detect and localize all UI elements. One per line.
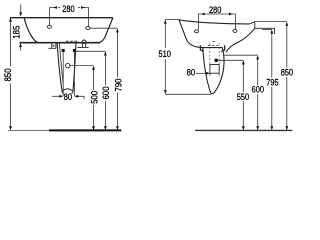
node: basin underside curve: [188, 42, 223, 48]
wire: drain pipe right line: [218, 43, 220, 64]
node: pedestal inner bottom arc: [62, 89, 73, 91]
svg-text:510: 510: [159, 48, 171, 59]
node: rectangle corner ticks: [210, 73, 219, 75]
node A: basin left profile: [24, 18, 38, 43]
wire: basin rim top line: [10, 17, 113, 19]
dimension 600 (pedestal back to floor): [224, 55, 258, 127]
wire: drain pipe left line: [209, 43, 211, 64]
wire: left bolt line down: [62, 52, 64, 96]
wire: right bolt line down: [73, 52, 75, 96]
svg-text:280: 280: [209, 4, 221, 15]
svg-text:80: 80: [187, 66, 195, 77]
node: right small tab under basin: [77, 43, 88, 47]
node: semi-pedestal outline left edge: [57, 43, 62, 92]
node: basin front face diagonal: [179, 20, 188, 42]
dimension 850 left: [10, 21, 12, 127]
dimension 790 (rim side to floor): [90, 28, 117, 127]
node: fixing plate rectangle in pedestal: [210, 65, 219, 74]
node: right fixing bolt square: [73, 49, 76, 52]
svg-text:795: 795: [266, 77, 278, 88]
svg-text:80: 80: [64, 91, 72, 102]
svg-text:550: 550: [237, 91, 249, 102]
node: fixing bolt dot side view: [214, 59, 218, 63]
node: pedestal top right bracket: [221, 45, 224, 51]
dimension 280 top-left: [50, 8, 89, 27]
node: basin back edge to wall: [255, 22, 275, 34]
node: right tap hole side view: [233, 29, 237, 32]
node: basin side top surface: [179, 20, 250, 24]
svg-text:185: 185: [10, 26, 21, 39]
node: side pedestal right edge: [214, 48, 224, 94]
dimension 550 (bolt dot to floor): [218, 60, 243, 127]
dimension 80 side view: [196, 72, 207, 74]
wire: floor line thick under left view: [49, 129, 121, 131]
svg-text:600: 600: [252, 84, 264, 95]
wire: floor line right view: [195, 129, 292, 131]
wire: floor line thin left part: [8, 129, 49, 131]
node: basin underside rear curve: [226, 28, 255, 52]
svg-text:500: 500: [88, 91, 99, 104]
svg-text:850: 850: [2, 68, 13, 81]
node: pedestal right foot tick: [71, 92, 72, 95]
node: basin back top rise: [250, 22, 255, 24]
node: drain circle on pedestal: [66, 63, 70, 67]
node: left fixing bolt square: [62, 49, 65, 52]
dimension 280 top-right: [198, 14, 235, 30]
node: semi-pedestal inner left line: [59, 43, 63, 84]
node: tab bolt dot: [53, 45, 55, 47]
svg-text:790: 790: [112, 79, 123, 92]
svg-text:850: 850: [281, 67, 293, 78]
svg-text:280: 280: [62, 3, 74, 14]
node: left tap hole side view: [195, 30, 199, 33]
svg-text:600: 600: [100, 86, 111, 99]
node: side pedestal bottom tip: [211, 92, 214, 95]
node: pedestal top left bracket: [200, 45, 203, 51]
wire: basin bottom line: [20, 42, 101, 44]
node: right tap hole: [86, 27, 90, 30]
node: semi-pedestal outline right edge: [73, 43, 76, 92]
wire: hidden dashed line under basin: [66, 40, 78, 42]
node: left fixing tab under basin: [49, 43, 56, 48]
node B: basin right profile: [99, 18, 112, 43]
dimension 850 right (rim top to floor): [255, 22, 287, 127]
dimension 600 (bolt to floor): [74, 51, 105, 127]
dimension 500 (circle to floor): [70, 66, 94, 127]
node: overflow oval on basin front: [82, 40, 86, 43]
node: pedestal left foot tick: [62, 92, 63, 95]
wire: hidden drain dashes: [208, 42, 219, 46]
node: side pedestal left edge: [203, 48, 211, 94]
dimension 795 (basin underside back to floor): [262, 29, 272, 127]
dimension 510 (rim to pedestal bottom): [165, 20, 211, 95]
node: left tap hole: [47, 25, 51, 28]
dimension 185 left: [20, 5, 22, 51]
dimension 80 pedestal bottom: [52, 96, 84, 99]
